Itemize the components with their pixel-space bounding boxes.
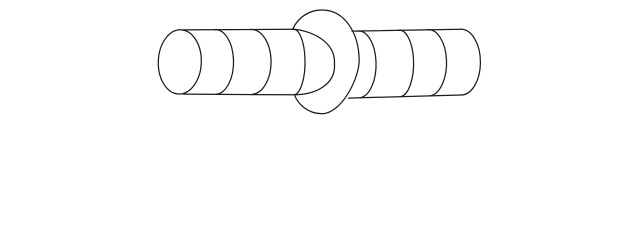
left thread arc 2: [251, 29, 272, 94]
left cylinder bottom line: [184, 93, 295, 96]
left end cap ellipse: [157, 29, 202, 95]
left thread arc 3 at flange: [293, 29, 305, 95]
left cylinder top line: [183, 28, 293, 31]
right thread arc 2: [398, 30, 414, 96]
right cylinder top line: [352, 29, 461, 31]
flange outer rim: [293, 10, 360, 114]
right thread arc 3: [427, 30, 447, 96]
right thread arc 1: [358, 31, 377, 98]
right cylinder bottom line: [349, 95, 461, 98]
flange inner face arc: [293, 29, 335, 95]
right end cap: [461, 29, 480, 95]
threaded stud line drawing: [0, 0, 640, 125]
left thread arc 1: [214, 30, 233, 95]
